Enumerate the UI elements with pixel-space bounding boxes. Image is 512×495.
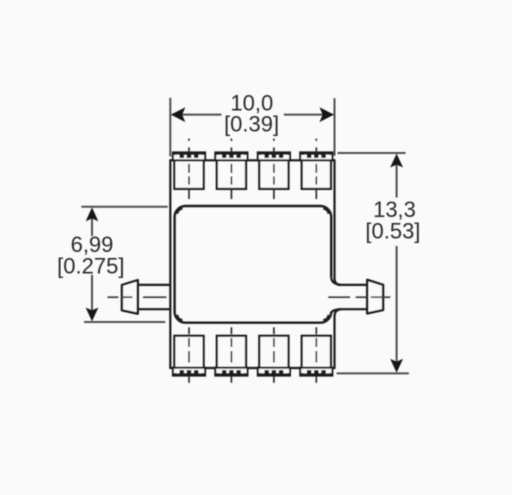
top pin 4 centerline: [315, 139, 317, 199]
top pin 3 lead cap: [258, 152, 290, 160]
package body right edge upper segment with fillet into right port: [335, 159, 342, 285]
sensor lid rounded outline: [175, 206, 332, 323]
top pin 3 body: [259, 160, 288, 189]
lid dimension arrowhead up: [86, 207, 99, 221]
top pin 4 lead cap: [300, 152, 332, 160]
right port tube: [338, 285, 368, 309]
top pin 2 lead cap: [215, 152, 247, 160]
top pin 1 centerline: [188, 139, 190, 199]
bottom pin 4 lead foot: [300, 368, 332, 376]
width dimension arrowhead right: [320, 107, 334, 122]
bottom pin 2 centerline: [230, 327, 232, 383]
package body bottom edge: [170, 367, 334, 369]
top pin 1 lead cap: [173, 152, 205, 160]
bottom pin 3 body: [259, 336, 288, 368]
width dimension line: [172, 114, 333, 116]
width dimension extension line left: [169, 98, 171, 157]
top pin 3 centerline: [273, 139, 275, 199]
height dimension extension line bottom: [337, 372, 409, 374]
right port centerline: [328, 296, 390, 298]
width dimension extension line right: [334, 98, 336, 156]
package body right edge lower segment with fillet from right port: [335, 309, 342, 369]
svg-text:[0.275]: [0.275]: [57, 253, 124, 278]
lid dimension extension line top: [81, 206, 167, 208]
bottom pin 4 body: [302, 336, 331, 368]
height dimension arrowhead down: [390, 359, 403, 373]
height dimension extension line top: [338, 152, 406, 154]
svg-text:[0.53]: [0.53]: [365, 219, 420, 244]
lid edge fillets into right port: [331, 277, 339, 284]
package body top edge: [170, 159, 334, 161]
bottom pin 1 centerline: [188, 327, 190, 383]
package body left edge: [169, 159, 171, 369]
left port barb tip: [122, 280, 138, 314]
left port centerline: [108, 296, 167, 298]
lid dimension extension line bottom: [84, 321, 165, 323]
bottom pin 2 lead foot: [215, 368, 247, 376]
height dimension line: [396, 160, 398, 366]
top pin 2 centerline: [230, 139, 232, 199]
top pin 2 body: [217, 160, 246, 189]
right port barb tip: [367, 280, 383, 314]
svg-text:[0.39]: [0.39]: [224, 111, 279, 136]
bottom pin 3 lead foot: [258, 368, 290, 376]
top pin 1 body: [174, 160, 203, 189]
top pin 4 body: [302, 160, 331, 189]
width dimension arrowhead left: [171, 107, 185, 122]
lid dimension line: [91, 214, 93, 315]
bottom pin 1 body: [174, 336, 203, 368]
lid inner corner arcs: [178, 209, 183, 214]
bottom pin 4 centerline: [315, 327, 317, 383]
bottom pin 2 body: [217, 336, 246, 368]
height dimension arrowhead up: [390, 154, 403, 168]
bottom pin 1 lead foot: [173, 368, 205, 376]
bottom pin 3 centerline: [273, 327, 275, 383]
lid dimension arrowhead down: [86, 308, 99, 322]
left port tube: [138, 285, 171, 309]
